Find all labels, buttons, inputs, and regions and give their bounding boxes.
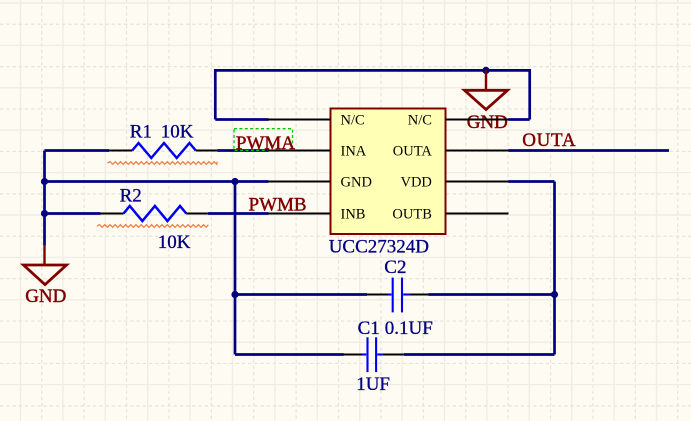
pin 8 N/C right — [408, 113, 509, 129]
label R1 — [130, 122, 152, 143]
wire R1 left — [45, 149, 110, 152]
junction GND row — [231, 178, 238, 185]
net label PWMB — [249, 195, 307, 216]
junction C2 left — [231, 291, 238, 298]
svg-text:N/C: N/C — [341, 113, 365, 129]
capacitor C1 — [343, 337, 404, 372]
resistor R2 — [100, 206, 208, 221]
wire C1 row right — [404, 353, 555, 356]
svg-text:C1: C1 — [358, 318, 380, 339]
svg-text:0.1UF: 0.1UF — [385, 318, 433, 339]
wire N/C left — [215, 118, 268, 121]
pin 5 OUTB — [392, 207, 508, 223]
wire R1 to INA — [217, 149, 268, 152]
junction left upper — [41, 178, 48, 185]
wire VDD — [509, 180, 555, 183]
pin 3 GND — [268, 175, 372, 191]
junction left lower — [41, 210, 48, 217]
svg-text:INB: INB — [341, 207, 366, 223]
value 0.1UF (C2) — [385, 318, 433, 339]
label C2 — [384, 257, 406, 278]
value 10K (R1) — [161, 122, 194, 143]
wire C1 row left — [235, 353, 344, 356]
svg-text:GND: GND — [341, 175, 372, 191]
wire R2 left — [45, 212, 101, 215]
resistor R1 — [109, 143, 218, 158]
pin 7 OUTA — [393, 144, 509, 160]
pin 1 N/C left — [268, 113, 365, 129]
svg-text:OUTA: OUTA — [522, 130, 576, 151]
ground symbol left — [24, 246, 67, 285]
label C1 — [358, 318, 380, 339]
wire C2 row right — [429, 293, 555, 296]
svg-text:R2: R2 — [120, 185, 142, 206]
svg-text:OUTA: OUTA — [393, 144, 433, 160]
svg-text:VDD: VDD — [400, 175, 431, 191]
junction C2 right — [551, 291, 558, 298]
wire right vertical — [553, 182, 556, 355]
svg-text:UCC27324D: UCC27324D — [329, 237, 429, 258]
svg-text:INA: INA — [341, 144, 367, 160]
pin 4 INB — [268, 207, 366, 223]
value 10K (R2) — [158, 232, 191, 253]
svg-text:OUTB: OUTB — [392, 207, 431, 223]
ground left label GND — [25, 286, 66, 307]
error squiggle R1 — [108, 162, 218, 165]
net label PWMA — [234, 129, 295, 155]
wire N/C right — [509, 118, 530, 121]
pin 2 INA — [268, 144, 367, 160]
pin 6 VDD — [400, 175, 508, 191]
ground symbol top — [465, 70, 508, 109]
svg-text:C2: C2 — [384, 257, 406, 278]
label UCC27324D — [329, 237, 429, 258]
wire GND row — [45, 180, 269, 183]
value 1UF (C1) — [356, 374, 390, 395]
svg-text:1UF: 1UF — [356, 374, 390, 395]
wire left vertical — [43, 151, 46, 246]
junction top GND — [482, 67, 489, 74]
svg-text:10K: 10K — [158, 232, 191, 253]
wire OUTA — [509, 149, 670, 152]
ground top label GND — [467, 112, 508, 133]
svg-text:N/C: N/C — [408, 113, 432, 129]
driver IC U1 UCC27324D body — [331, 109, 446, 235]
svg-text:GND: GND — [25, 286, 66, 307]
error squiggle R2 — [97, 225, 208, 228]
label R2 — [120, 185, 142, 206]
svg-text:R1: R1 — [130, 122, 152, 143]
wire center vertical — [234, 182, 237, 355]
wire C2 row left — [235, 293, 367, 296]
net label OUTA — [522, 130, 576, 151]
wire R2 to INB — [208, 212, 269, 215]
svg-text:10K: 10K — [161, 122, 194, 143]
svg-text:GND: GND — [467, 112, 508, 133]
capacitor C2 — [366, 278, 429, 313]
wire top loop (N/C tie) — [215, 70, 529, 119]
